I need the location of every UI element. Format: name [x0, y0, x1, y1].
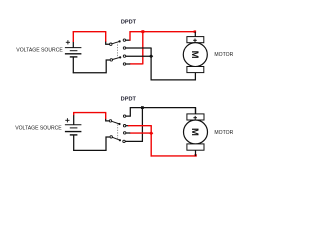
svg-text:MOTOR: MOTOR [214, 130, 233, 136]
wire red: battery+ horizontal to switch (bottom) [73, 112, 106, 114]
switch S1 pole2 throw A contact [123, 55, 125, 57]
junction dot red (motor end) [194, 30, 197, 33]
motor M2 bottom lead [195, 150, 197, 156]
wire red: vertical down right of switch (bottom) [150, 126, 152, 157]
battery BT1 plus sign [66, 40, 70, 44]
wire red: to throw2A (bottom) [130, 132, 152, 134]
wire battery BT1 positive lead (black part) [72, 42, 74, 48]
switch S1 pole1 throw B contact [123, 47, 125, 49]
wire black: stub from throw1B (bottom) [126, 125, 129, 127]
battery BT2 plus sign [65, 118, 69, 122]
switch S1 pole2 common contact [110, 59, 112, 61]
motor M2 plus sign [193, 116, 197, 120]
switch S1 pole2 throw B contact [123, 63, 125, 65]
wire battery BT2 positive lead (black part) [73, 115, 75, 125]
wire black: stub from throw1A up over to motor (bottom) [126, 108, 196, 117]
wire black: to throw2B (bottom) [125, 140, 143, 142]
switch S1 pole1 lever tip blob [119, 40, 121, 42]
switch S2 pole1 throw B contact [123, 125, 125, 127]
battery BT1 negative lead down [72, 57, 74, 73]
switch S2 pole2 common contact [110, 136, 112, 138]
wire black: stub from throw1A [126, 39, 131, 41]
svg-text:VOLTAGE SOURCE: VOLTAGE SOURCE [16, 47, 63, 53]
switch S1 pole1 common contact [110, 43, 112, 45]
wire black: from throw1B right [126, 47, 152, 49]
svg-text:M: M [189, 51, 200, 59]
wire black: stub into throw2A (bottom) [126, 132, 130, 134]
switch S1 pole1 lever (thrown up) [112, 41, 120, 44]
junction dot red (top run) [141, 30, 144, 33]
wire red: vertical cross-over drop [142, 32, 144, 65]
motor M1 top brush rect [187, 37, 204, 43]
wire black: corner into pole1 common [106, 42, 110, 45]
wire black: bottom run to motor [151, 73, 196, 80]
wire black: stub into throw2B [126, 63, 131, 65]
svg-text:DPDT: DPDT [121, 97, 137, 103]
motor M2 top lead [195, 108, 197, 114]
motor M1 top lead [194, 32, 196, 37]
wire red: vertical down to pole1 common [105, 32, 107, 42]
svg-text:DPDT: DPDT [121, 20, 137, 26]
switch S1 mechanical link (dashed) [117, 42, 119, 58]
switch S2 pole2 throw A contact [124, 132, 126, 134]
svg-text:VOLTAGE SOURCE: VOLTAGE SOURCE [15, 125, 62, 131]
motor M1 bottom brush rect [187, 67, 204, 73]
junction dot black [149, 54, 153, 58]
battery BT2 negative lead down [73, 135, 75, 151]
wire red: from throw1B right (bottom) [128, 125, 152, 127]
motor M2 top brush rect [187, 114, 204, 120]
wire red: to throw2B [130, 63, 143, 65]
svg-text:MOTOR: MOTOR [214, 52, 233, 58]
switch S2 pole1 lever (thrown down) [112, 121, 120, 124]
motor M1 plus sign [193, 39, 197, 43]
wire black: from throw2A right [126, 55, 151, 57]
wire black: vertical cross-over drop (bottom) [141, 108, 143, 142]
junction dot red (motor bottom lead) [194, 154, 196, 156]
switch S2 pole1 throw A contact [123, 115, 125, 117]
wire red: vertical down to pole1 common (bottom) [105, 113, 107, 120]
junction dot red (bottom) [149, 131, 153, 135]
switch S2 pole1 common contact [109, 120, 111, 122]
wire battery BT2 positive lead (red part) [73, 112, 75, 115]
wire battery BT1 positive lead (red part) [72, 31, 74, 42]
wire red: bottom run to motor (bottom) [151, 155, 197, 157]
motor M2 body circle [184, 120, 208, 144]
wire black: corner into pole1 common (bottom) [106, 119, 110, 121]
motor M1 body circle [183, 43, 207, 67]
wire black: battery- bottom run [73, 60, 110, 73]
svg-text:M: M [189, 128, 200, 136]
wire black: vertical down right of switch [150, 48, 152, 80]
switch S2 pole2 throw B contact [123, 140, 125, 142]
battery BT2 plates [65, 125, 82, 135]
junction dot black (bottom top run) [141, 106, 144, 109]
switch S2 pole1 lever tip blob [118, 123, 120, 125]
switch S1 pole1 throw A contact [123, 39, 125, 41]
switch S2 pole2 lever tip blob [119, 139, 121, 141]
wire red: top run to motor [130, 31, 196, 33]
switch S1 pole2 lever tip blob [119, 56, 121, 58]
motor M2 bottom brush rect [187, 144, 204, 150]
wire red: up from throw1A stub [129, 31, 131, 40]
switch S2 pole2 lever (thrown down) [112, 137, 120, 140]
battery BT1 plates [65, 48, 82, 57]
switch S1 pole2 lever (thrown up) [113, 57, 121, 59]
wire red: battery+ horizontal to switch [73, 31, 107, 33]
wire black: battery- bottom run (bottom) [73, 137, 110, 150]
switch S2 mechanical link (dashed) [117, 125, 119, 141]
